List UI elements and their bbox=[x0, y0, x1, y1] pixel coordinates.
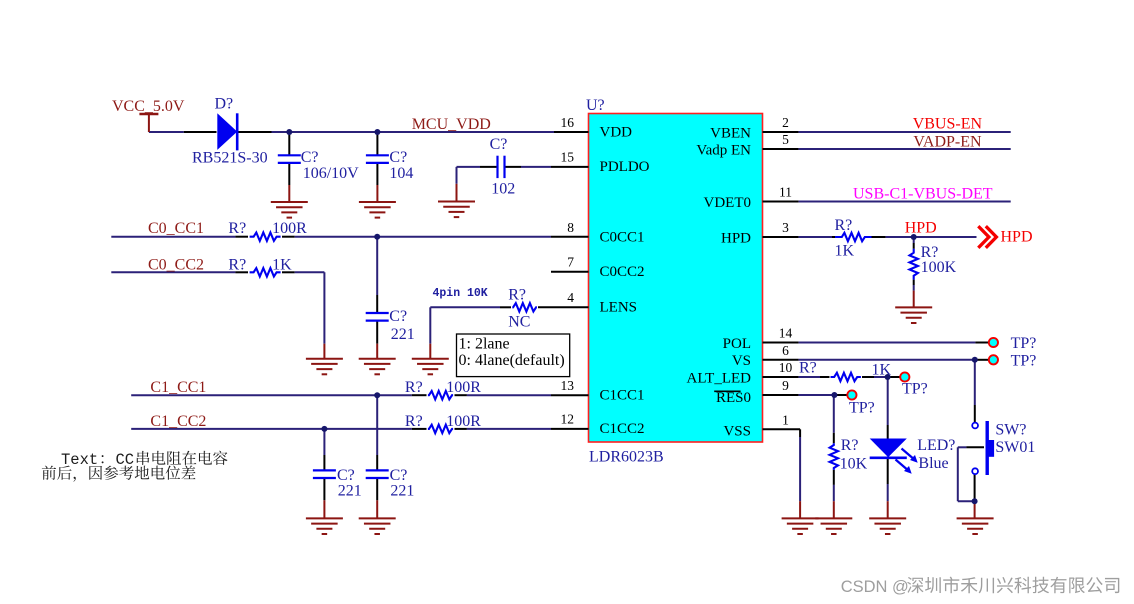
svg-text:POL: POL bbox=[723, 336, 751, 352]
svg-text:R?: R? bbox=[841, 437, 859, 454]
svg-text:1: 2lane: 1: 2lane bbox=[459, 335, 510, 352]
svg-text:HPD: HPD bbox=[721, 230, 751, 246]
svg-text:C0_CC1: C0_CC1 bbox=[148, 220, 204, 237]
svg-text:102: 102 bbox=[491, 181, 515, 198]
svg-text:LENS: LENS bbox=[600, 300, 638, 316]
svg-text:C?: C? bbox=[490, 136, 508, 153]
svg-text:C?: C? bbox=[389, 149, 407, 166]
svg-text:1K: 1K bbox=[835, 243, 855, 260]
svg-text:5: 5 bbox=[782, 132, 789, 147]
svg-text:HPD: HPD bbox=[1001, 228, 1033, 245]
svg-text:R?: R? bbox=[799, 360, 817, 377]
svg-text:R?: R? bbox=[228, 220, 246, 237]
svg-text:16: 16 bbox=[561, 115, 575, 130]
svg-text:R?: R? bbox=[228, 257, 246, 274]
svg-text:TP?: TP? bbox=[1011, 335, 1037, 352]
svg-text:RB521S-30: RB521S-30 bbox=[192, 150, 268, 167]
svg-text:TP?: TP? bbox=[849, 400, 875, 417]
svg-text:C1CC2: C1CC2 bbox=[600, 421, 645, 437]
svg-text:C0_CC2: C0_CC2 bbox=[148, 257, 204, 274]
svg-text:221: 221 bbox=[338, 483, 362, 500]
svg-text:VADP-EN: VADP-EN bbox=[913, 133, 982, 150]
svg-text:11: 11 bbox=[779, 185, 792, 200]
svg-text:RES0: RES0 bbox=[716, 390, 751, 406]
svg-text:R?: R? bbox=[405, 413, 423, 430]
svg-text:VDET0: VDET0 bbox=[704, 195, 752, 211]
svg-text:TP?: TP? bbox=[902, 381, 928, 398]
svg-text:Vadp EN: Vadp EN bbox=[696, 142, 751, 158]
svg-text:CSDN @: CSDN @ bbox=[841, 578, 909, 596]
svg-text:100R: 100R bbox=[446, 413, 481, 430]
svg-text:C1_CC1: C1_CC1 bbox=[150, 379, 206, 396]
svg-text:C0CC2: C0CC2 bbox=[600, 264, 645, 280]
svg-text:NC: NC bbox=[508, 314, 530, 331]
svg-text:4pin 10K: 4pin 10K bbox=[433, 287, 488, 300]
svg-text:C?: C? bbox=[301, 149, 319, 166]
svg-text:10: 10 bbox=[779, 360, 793, 375]
svg-text:100K: 100K bbox=[921, 259, 957, 276]
svg-text:MCU_VDD: MCU_VDD bbox=[412, 116, 491, 133]
svg-text:221: 221 bbox=[390, 483, 414, 500]
svg-text:100R: 100R bbox=[446, 379, 481, 396]
svg-text:12: 12 bbox=[561, 412, 575, 427]
svg-text:U?: U? bbox=[586, 97, 605, 114]
svg-text:C1CC1: C1CC1 bbox=[600, 388, 645, 404]
svg-text:13: 13 bbox=[561, 378, 575, 393]
svg-text:VSS: VSS bbox=[723, 423, 751, 439]
svg-text:106/10V: 106/10V bbox=[303, 165, 359, 182]
svg-text:1: 1 bbox=[782, 412, 789, 427]
svg-text:7: 7 bbox=[567, 255, 574, 270]
svg-text:R?: R? bbox=[508, 287, 526, 304]
svg-text:LDR6023B: LDR6023B bbox=[589, 449, 664, 466]
svg-text:R?: R? bbox=[405, 379, 423, 396]
svg-text:1K: 1K bbox=[272, 257, 292, 274]
svg-text:Blue: Blue bbox=[918, 455, 948, 472]
svg-text:2: 2 bbox=[782, 115, 789, 130]
svg-text:C?: C? bbox=[390, 467, 408, 484]
svg-text:USB-C1-VBUS-DET: USB-C1-VBUS-DET bbox=[853, 186, 993, 203]
svg-text:TP?: TP? bbox=[1011, 353, 1037, 370]
svg-text:PDLDO: PDLDO bbox=[600, 159, 650, 175]
svg-text:104: 104 bbox=[389, 165, 413, 182]
svg-text:SW?: SW? bbox=[995, 422, 1026, 439]
svg-text:10K: 10K bbox=[840, 456, 868, 473]
svg-text:C?: C? bbox=[389, 308, 407, 325]
svg-text:C?: C? bbox=[337, 467, 355, 484]
svg-text:100R: 100R bbox=[272, 220, 307, 237]
svg-text:C1_CC2: C1_CC2 bbox=[150, 413, 206, 430]
svg-text:15: 15 bbox=[561, 150, 575, 165]
svg-text:LED?: LED? bbox=[917, 437, 955, 454]
svg-text:3: 3 bbox=[782, 220, 789, 235]
svg-text:SW01: SW01 bbox=[995, 439, 1035, 456]
svg-text:VDD: VDD bbox=[600, 124, 633, 140]
svg-text:VS: VS bbox=[732, 353, 751, 369]
svg-text:R?: R? bbox=[835, 217, 853, 234]
svg-text:D?: D? bbox=[215, 95, 234, 112]
svg-text:1K: 1K bbox=[872, 361, 892, 378]
svg-text:C0CC1: C0CC1 bbox=[600, 229, 645, 245]
svg-text:6: 6 bbox=[782, 343, 789, 358]
svg-text:Text: Text bbox=[61, 451, 98, 469]
svg-text:221: 221 bbox=[391, 326, 415, 343]
svg-text:VBEN: VBEN bbox=[710, 125, 751, 141]
svg-text:9: 9 bbox=[782, 378, 789, 393]
svg-text:VCC_5.0V: VCC_5.0V bbox=[112, 98, 185, 115]
svg-text:VBUS-EN: VBUS-EN bbox=[913, 116, 983, 133]
svg-text:4: 4 bbox=[567, 290, 574, 305]
svg-text:ALT_LED: ALT_LED bbox=[687, 370, 752, 386]
svg-text:HPD: HPD bbox=[905, 219, 937, 236]
svg-text:0: 4lane(default): 0: 4lane(default) bbox=[459, 352, 565, 369]
svg-text:8: 8 bbox=[567, 220, 574, 235]
svg-text:14: 14 bbox=[779, 326, 793, 341]
